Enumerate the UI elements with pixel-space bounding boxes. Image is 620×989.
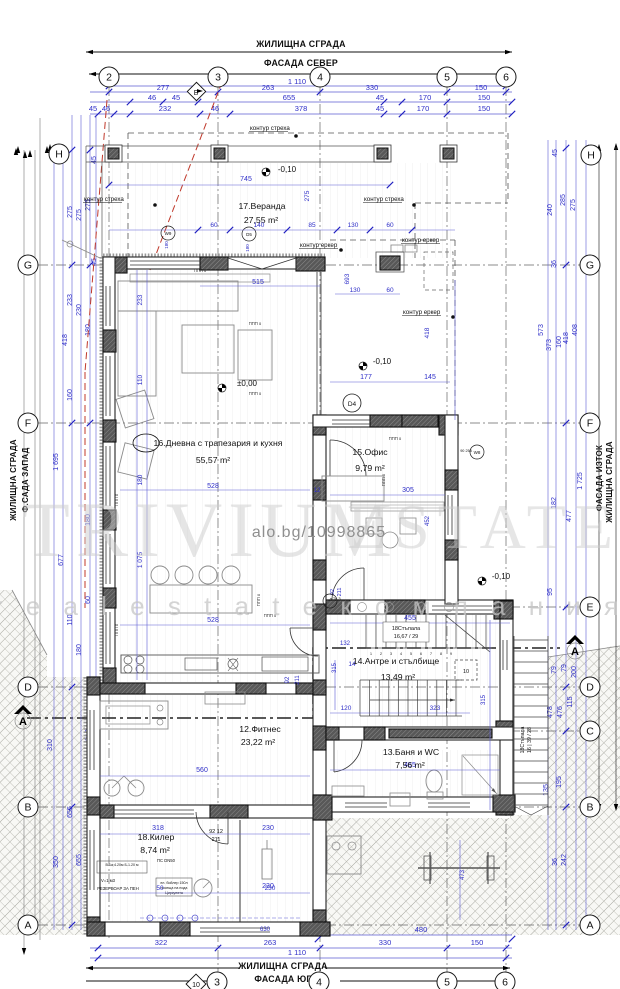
svg-text:13,49 m²: 13,49 m² xyxy=(381,672,415,682)
svg-text:515: 515 xyxy=(252,279,264,286)
svg-text:W9: W9 xyxy=(165,231,172,236)
svg-text:476: 476 xyxy=(557,706,564,718)
svg-text:Н: Н xyxy=(587,150,595,162)
svg-text:16,67 / 29: 16,67 / 29 xyxy=(394,634,418,640)
svg-text:275: 275 xyxy=(304,190,311,201)
svg-text:r e a l e s t a t e к о м: r e a l e s t a t e к о м п а н и я xyxy=(0,591,620,621)
svg-text:285: 285 xyxy=(560,194,567,206)
svg-text:211: 211 xyxy=(295,675,301,685)
svg-text:230: 230 xyxy=(262,825,274,832)
svg-text:150: 150 xyxy=(478,104,491,113)
svg-text:alo.bg/10998865: alo.bg/10998865 xyxy=(252,524,386,541)
svg-text:330: 330 xyxy=(379,938,392,947)
svg-text:-0,10: -0,10 xyxy=(373,357,392,366)
svg-text:230: 230 xyxy=(265,885,276,892)
svg-text:233: 233 xyxy=(67,294,74,306)
svg-text:323: 323 xyxy=(430,705,441,712)
svg-text:D5: D5 xyxy=(246,232,252,237)
svg-text:92: 92 xyxy=(285,676,291,683)
svg-text:200: 200 xyxy=(571,666,578,678)
svg-text:8,74 m²: 8,74 m² xyxy=(140,845,170,855)
svg-text:ЖИЛИЩНА СГРАДА: ЖИЛИЩНА СГРАДА xyxy=(237,961,328,971)
svg-text:745: 745 xyxy=(240,176,252,183)
svg-text:ФАСАДА СЕВЕР: ФАСАДА СЕВЕР xyxy=(264,58,338,68)
svg-text:ел. бойлер 150л: ел. бойлер 150л xyxy=(160,881,187,885)
svg-text:418: 418 xyxy=(62,334,69,346)
svg-text:275: 275 xyxy=(67,206,74,218)
svg-text:132: 132 xyxy=(340,641,351,647)
svg-text:10: 10 xyxy=(463,669,469,675)
svg-text:A: A xyxy=(24,920,31,932)
svg-text:C: C xyxy=(586,726,594,738)
svg-text:130: 130 xyxy=(350,287,361,294)
svg-text:B: B xyxy=(586,802,593,814)
svg-text:16.Дневна с трапезария и кухня: 16.Дневна с трапезария и кухня xyxy=(154,438,283,448)
svg-text:ППП о: ППП о xyxy=(194,268,207,273)
svg-text:240: 240 xyxy=(547,204,554,216)
svg-text:170: 170 xyxy=(419,93,432,102)
svg-text:180: 180 xyxy=(137,474,144,485)
svg-text:2: 2 xyxy=(106,72,112,84)
svg-text:D: D xyxy=(24,682,32,694)
svg-text:90 255: 90 255 xyxy=(460,449,472,453)
svg-text:6: 6 xyxy=(503,72,509,84)
svg-text:180: 180 xyxy=(245,244,250,252)
svg-text:16 | 39 / 28: 16 | 39 / 28 xyxy=(527,727,533,753)
svg-text:4: 4 xyxy=(316,977,322,989)
svg-text:-0,10: -0,10 xyxy=(278,165,297,174)
svg-text:ППП о: ППП о xyxy=(114,623,119,636)
svg-text:Н: Н xyxy=(55,149,63,161)
svg-text:W8: W8 xyxy=(474,450,481,455)
svg-text:263: 263 xyxy=(264,938,277,947)
svg-text:110: 110 xyxy=(137,374,144,385)
svg-text:1 695: 1 695 xyxy=(53,453,60,471)
svg-text:ППП о: ППП о xyxy=(381,473,386,486)
svg-text:ППП о: ППП о xyxy=(389,436,402,441)
svg-text:473: 473 xyxy=(460,869,466,880)
svg-text:350: 350 xyxy=(53,856,60,868)
svg-text:160: 160 xyxy=(67,389,74,401)
svg-text:120: 120 xyxy=(341,705,352,712)
svg-text:180: 180 xyxy=(76,644,83,656)
svg-text:330: 330 xyxy=(366,83,379,92)
svg-text:230: 230 xyxy=(76,304,83,316)
svg-text:17.Веранда: 17.Веранда xyxy=(238,201,285,211)
svg-text:180: 180 xyxy=(164,241,169,249)
svg-text:F: F xyxy=(587,418,593,430)
svg-text:1 110: 1 110 xyxy=(288,948,306,957)
svg-text:45: 45 xyxy=(172,93,180,102)
svg-text:480: 480 xyxy=(415,925,428,934)
svg-text:85: 85 xyxy=(308,222,316,229)
svg-text:630: 630 xyxy=(260,927,271,933)
svg-text:170: 170 xyxy=(417,104,430,113)
svg-text:контур стреха: контур стреха xyxy=(364,196,404,203)
svg-text:275: 275 xyxy=(76,209,83,221)
svg-text:ППП о: ППП о xyxy=(249,391,262,396)
svg-text:79: 79 xyxy=(561,664,568,672)
svg-text:36: 36 xyxy=(551,260,558,268)
svg-text:18Стъпала: 18Стъпала xyxy=(392,626,421,632)
svg-text:23,22 m²: 23,22 m² xyxy=(241,737,275,747)
svg-text:G: G xyxy=(586,260,594,272)
svg-text:контур еркер: контур еркер xyxy=(402,237,440,244)
svg-text:45: 45 xyxy=(89,104,97,113)
svg-text:±0,00: ±0,00 xyxy=(237,379,258,388)
svg-text:ЖИЛИЩНА СГРАДА: ЖИЛИЩНА СГРАДА xyxy=(9,439,18,522)
svg-text:1 725: 1 725 xyxy=(577,472,584,490)
svg-text:B: B xyxy=(24,802,31,814)
svg-text:408: 408 xyxy=(572,324,579,336)
svg-text:418: 418 xyxy=(563,332,570,344)
svg-text:5: 5 xyxy=(444,977,450,989)
svg-text:F: F xyxy=(25,418,31,430)
svg-text:573: 573 xyxy=(538,324,545,336)
svg-text:275: 275 xyxy=(570,199,577,211)
svg-text:3: 3 xyxy=(215,72,221,84)
svg-text:140: 140 xyxy=(254,222,265,229)
svg-text:E: E xyxy=(586,602,593,614)
svg-text:150: 150 xyxy=(471,938,484,947)
svg-text:45: 45 xyxy=(376,93,384,102)
svg-text:195: 195 xyxy=(556,776,563,788)
svg-text:A: A xyxy=(586,920,593,932)
svg-text:V=1 м3: V=1 м3 xyxy=(101,878,116,883)
svg-text:322: 322 xyxy=(155,938,168,947)
svg-text:ПС DN50: ПС DN50 xyxy=(157,858,176,863)
svg-text:D: D xyxy=(586,682,594,694)
svg-text:232: 232 xyxy=(159,104,172,113)
svg-text:560: 560 xyxy=(196,767,208,774)
svg-text:А: А xyxy=(19,716,27,728)
svg-text:36: 36 xyxy=(552,858,559,866)
svg-text:115: 115 xyxy=(567,696,574,707)
svg-text:177: 177 xyxy=(360,374,372,381)
svg-text:277: 277 xyxy=(157,83,170,92)
svg-text:150: 150 xyxy=(475,83,488,92)
svg-text:45: 45 xyxy=(91,156,98,164)
svg-text:носеща на пода: носеща на пода xyxy=(161,886,188,890)
svg-text:378: 378 xyxy=(295,104,308,113)
svg-text:310: 310 xyxy=(47,739,54,751)
svg-text:9,79 m²: 9,79 m² xyxy=(355,463,385,473)
svg-text:ППП о: ППП о xyxy=(249,321,262,326)
svg-text:контур стреха: контур стреха xyxy=(250,125,290,132)
svg-text:-0,10: -0,10 xyxy=(492,572,511,581)
svg-text:1 110: 1 110 xyxy=(288,77,306,86)
svg-text:211: 211 xyxy=(212,837,221,843)
svg-text:46: 46 xyxy=(148,93,156,102)
svg-text:60: 60 xyxy=(386,222,394,229)
svg-text:РЕЗЕРВОАР ЗА ПЕН: РЕЗЕРВОАР ЗА ПЕН xyxy=(97,886,139,891)
svg-text:13.Баня и WC: 13.Баня и WC xyxy=(383,747,439,757)
svg-text:В-1а;4.20м Б-1.20 м: В-1а;4.20м Б-1.20 м xyxy=(105,863,139,867)
svg-text:150: 150 xyxy=(478,93,491,102)
svg-text:18.Килер: 18.Килер xyxy=(138,832,175,842)
svg-text:60: 60 xyxy=(386,287,394,294)
svg-text:145: 145 xyxy=(424,374,436,381)
svg-text:55,57 m²: 55,57 m² xyxy=(196,455,230,465)
svg-text:79: 79 xyxy=(551,666,558,674)
svg-text:315: 315 xyxy=(481,694,487,705)
svg-text:655: 655 xyxy=(76,854,83,866)
svg-text:655: 655 xyxy=(283,93,296,102)
svg-text:10: 10 xyxy=(192,982,200,989)
svg-text:50: 50 xyxy=(156,885,164,892)
svg-text:263: 263 xyxy=(262,83,275,92)
svg-text:контур стреха: контур стреха xyxy=(84,196,124,203)
svg-text:7,56 m²: 7,56 m² xyxy=(395,760,425,770)
svg-text:контур еркер: контур еркер xyxy=(403,309,441,316)
svg-text:контур еркер: контур еркер xyxy=(300,242,338,249)
svg-text:6: 6 xyxy=(502,977,508,989)
svg-text:45: 45 xyxy=(552,149,559,157)
svg-text:242: 242 xyxy=(561,854,568,866)
svg-text:373: 373 xyxy=(546,339,553,351)
svg-text:D4: D4 xyxy=(348,401,357,408)
svg-text:233: 233 xyxy=(137,294,144,305)
svg-text:160: 160 xyxy=(556,336,563,348)
svg-text:ЖИЛИЩНА СГРАДА: ЖИЛИЩНА СГРАДА xyxy=(255,39,346,49)
svg-text:18Стъпала: 18Стъпала xyxy=(520,727,526,754)
svg-text:318: 318 xyxy=(152,825,164,832)
svg-text:693: 693 xyxy=(344,273,351,284)
svg-text:45: 45 xyxy=(376,104,384,113)
svg-text:А: А xyxy=(571,646,579,658)
svg-text:418: 418 xyxy=(424,327,431,338)
svg-text:ESTATE: ESTATE xyxy=(347,491,620,562)
svg-text:14.Антре и стълбище: 14.Антре и стълбище xyxy=(353,656,440,666)
svg-text:130: 130 xyxy=(348,222,359,229)
svg-text:G: G xyxy=(24,260,32,272)
svg-text:12.Фитнес: 12.Фитнес xyxy=(239,724,281,734)
svg-text:3: 3 xyxy=(214,977,220,989)
svg-text:4: 4 xyxy=(317,72,323,84)
svg-text:ФАСАДА ЮГ: ФАСАДА ЮГ xyxy=(254,974,311,984)
svg-text:60: 60 xyxy=(210,222,218,229)
svg-text:5: 5 xyxy=(444,72,450,84)
svg-text:15.Офис: 15.Офис xyxy=(352,447,388,457)
